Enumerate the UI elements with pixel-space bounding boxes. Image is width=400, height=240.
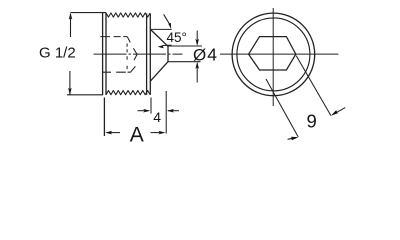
- dimA left arrow tail: [107, 132, 120, 134]
- dim9 extension line from upper-right flat: [296, 56, 331, 116]
- left face outer line: [102, 13, 104, 95]
- 45deg lower arrowhead: [158, 45, 165, 49]
- chamfer cone lower edge: [150, 62, 168, 81]
- hex socket hexagon: [249, 37, 296, 70]
- svg-text:4: 4: [207, 44, 217, 64]
- drill cone upper hidden edge: [127, 37, 137, 55]
- dimA right arrowhead: [158, 131, 165, 135]
- svg-text:9: 9: [307, 111, 317, 132]
- 45deg reference extension line: [150, 28, 171, 30]
- dim9 right arrowhead: [331, 110, 338, 116]
- top thread crest zigzag: [106, 13, 150, 17]
- tip end face: [167, 46, 169, 61]
- bottom extension line of thread OD: [67, 94, 103, 96]
- arrow down at thread OD bottom: [68, 88, 72, 95]
- dia4 bottom arrow stub: [196, 63, 198, 82]
- top extension line of thread OD: [71, 12, 107, 14]
- socket bottom line (hidden vertical): [126, 44, 128, 70]
- hex socket top flat (hidden): [100, 36, 127, 38]
- dim4 left arrow tail: [138, 110, 149, 112]
- 45deg lower arrow tail: [163, 44, 172, 46]
- dim4 right arrowhead: [167, 109, 174, 113]
- dimA left extension line: [103, 98, 105, 137]
- vertical centerline end view: [272, 8, 274, 106]
- dim4 right arrow tail: [168, 110, 179, 112]
- dim9 extension line from lower-left flat: [266, 79, 298, 137]
- dia4 top arrow stub: [196, 31, 198, 45]
- dim4 left extension line: [150, 98, 152, 114]
- arrow up at thread OD top: [69, 13, 73, 20]
- end view inner circle: [237, 18, 310, 91]
- horizontal centerline end view: [220, 53, 338, 55]
- drill cone lower hidden edge: [131, 54, 138, 72]
- end view outer circle: [232, 13, 315, 96]
- dim9 left arrow tail: [288, 138, 293, 139]
- dia4 bottom extension line: [168, 61, 201, 63]
- 45deg leader line: [164, 14, 171, 25]
- 45deg leader arrowhead: [168, 23, 171, 29]
- thread end line right: [149, 14, 151, 95]
- dim9 right arrow tail: [336, 108, 345, 113]
- svg-text:4: 4: [153, 109, 161, 125]
- G1/2 dimension stub top: [70, 14, 72, 37]
- bottom thread crest zigzag: [106, 91, 150, 95]
- dim4 left arrowhead: [143, 109, 150, 113]
- dia4 top extension line: [168, 45, 202, 47]
- dia4 top arrowhead: [195, 39, 199, 46]
- dimA right arrow tail: [151, 132, 164, 134]
- dimA left arrowhead: [105, 131, 112, 135]
- chamfer cone upper edge: [150, 29, 168, 46]
- dia4 bottom arrowhead: [195, 62, 199, 69]
- hex socket bottom flat (hidden): [102, 71, 130, 73]
- svg-text:G 1/2: G 1/2: [39, 45, 76, 62]
- G1/2 dimension stub bottom: [69, 71, 71, 95]
- thread end line left: [146, 14, 148, 95]
- svg-text:45°: 45°: [167, 30, 187, 45]
- svg-text:A: A: [130, 124, 144, 147]
- dim9 left arrowhead: [291, 137, 298, 140]
- svg-text:Ø: Ø: [193, 46, 206, 65]
- dim4 right extension line (shared with A): [165, 91, 167, 134]
- left face inner line: [105, 13, 107, 95]
- centerline left view: [94, 53, 183, 55]
